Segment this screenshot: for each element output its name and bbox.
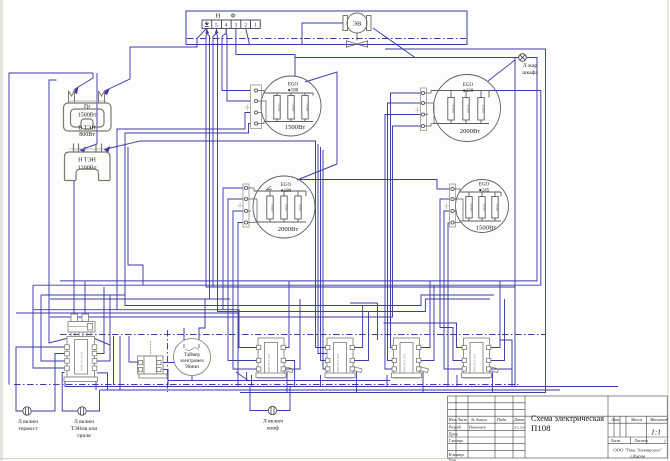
wire W42: [31, 354, 64, 412]
wire W37: [60, 58, 537, 281]
wire W13: [488, 60, 515, 81]
svg-text:Масса: Масса: [630, 417, 642, 422]
svg-text:ТЭНов или: ТЭНов или: [71, 426, 98, 432]
svg-text:Николаев: Николаев: [468, 425, 486, 430]
wire W40: [16, 312, 238, 314]
svg-text:ПМ 16-5-215: ПМ 16-5-215: [267, 353, 271, 372]
svg-text:500Вт: 500Вт: [291, 103, 295, 112]
svg-text:ПМ 16-5-215: ПМ 16-5-215: [336, 353, 340, 372]
svg-text:В ТЭН: В ТЭН: [78, 126, 96, 132]
lamp L3: [268, 406, 276, 414]
svg-text:500Вт: 500Вт: [469, 203, 473, 212]
wire W32: [448, 223, 450, 387]
wire W79: [100, 389, 560, 391]
svg-text:ПМ 16-5-215: ПМ 16-5-215: [403, 353, 407, 372]
svg-text:Пров.: Пров.: [448, 431, 459, 436]
wire W66: [354, 312, 368, 361]
svg-text:2: 2: [244, 23, 247, 29]
svg-text:гриля: гриля: [77, 433, 91, 439]
wire W58: [191, 376, 193, 381]
svg-text:ООО "Тока Электрогаз": ООО "Тока Электрогаз": [613, 448, 661, 453]
wire W20: [277, 387, 290, 411]
svg-text:Дата: Дата: [513, 417, 524, 422]
svg-text:500Вт: 500Вт: [495, 203, 499, 212]
svg-text:2000Вт: 2000Вт: [278, 226, 299, 233]
wire W29: [384, 323, 463, 348]
wire W4: [49, 80, 57, 317]
wire W35: [233, 211, 257, 369]
svg-text:Н.контр.: Н.контр.: [448, 452, 465, 457]
wire W12: [295, 57, 519, 59]
svg-text:100Вт: 100Вт: [481, 105, 485, 114]
wire W24: [391, 93, 421, 348]
svg-text:Т.контр.: Т.контр.: [449, 438, 464, 443]
svg-text:Лист: Лист: [610, 438, 621, 443]
wire W38: [33, 91, 541, 286]
svg-text:П108: П108: [531, 423, 551, 433]
wire W73: [386, 375, 388, 387]
svg-text:EGO: EGO: [479, 183, 490, 188]
wire W39: [41, 294, 125, 296]
switch S2 (small): [138, 341, 168, 378]
terminal block X1: [202, 20, 260, 28]
svg-text:1500Вт: 1500Вт: [285, 124, 306, 131]
wire W36: [238, 223, 243, 387]
svg-text:Л включ: Л включ: [18, 419, 38, 425]
svg-text:950Вт: 950Вт: [466, 105, 470, 114]
wire W67: [421, 281, 430, 348]
wire W6: [217, 28, 491, 312]
svg-text:конф: конф: [267, 425, 279, 432]
wire W70: [491, 369, 512, 387]
wire W30: [440, 199, 462, 361]
svg-text:Л жар: Л жар: [523, 63, 538, 69]
TEN1 (grill): [64, 91, 112, 132]
wire W72: [320, 375, 322, 387]
switch S5: [392, 338, 422, 378]
timer: [174, 339, 211, 376]
top box: [186, 11, 467, 45]
svg-text:800Вт: 800Вт: [79, 132, 95, 138]
svg-text:№ докум.: № докум.: [470, 417, 488, 422]
svg-text:Лист: Лист: [456, 417, 467, 422]
wire W22: [104, 141, 326, 348]
svg-text:Изм.: Изм.: [448, 417, 457, 422]
svg-text:г.Киров: г.Киров: [630, 454, 645, 459]
wire W57: [199, 299, 205, 347]
wire W76: [14, 384, 520, 386]
svg-text:шкафа: шкафа: [522, 69, 538, 76]
wire W61: [285, 361, 294, 387]
vertical lines left part: [456, 396, 525, 458]
svg-text:2000Вт: 2000Вт: [460, 128, 481, 135]
motor EV: [343, 13, 371, 47]
svg-text:●145: ●145: [479, 189, 490, 194]
wire W11: [207, 28, 210, 299]
switch S6: [462, 338, 492, 378]
svg-text:Схема электрическая: Схема электрическая: [531, 413, 604, 423]
lamp L1: [23, 407, 31, 415]
svg-text:●180: ●180: [288, 89, 299, 94]
lamp oven: [519, 54, 527, 62]
wire W41: [16, 347, 65, 411]
wire W33: [223, 188, 243, 310]
svg-text:26.11.2011: 26.11.2011: [514, 426, 525, 430]
wire W60: [285, 281, 289, 348]
svg-text:EGO: EGO: [288, 83, 299, 88]
svg-text:500Вт: 500Вт: [277, 103, 281, 112]
TEN2 (bottom): [65, 144, 111, 181]
svg-text:Л включ: Л включ: [263, 419, 283, 425]
wire W50: [84, 281, 86, 314]
wire W19: [125, 124, 494, 306]
svg-text:Утв.: Утв.: [449, 458, 458, 461]
svg-text:Н: Н: [216, 13, 221, 20]
wire W16: [515, 58, 519, 387]
wire W18: [117, 113, 251, 310]
wire W52: [113, 336, 115, 385]
wire W3: [74, 73, 94, 90]
wire W53: [119, 336, 121, 390]
svg-text:500Вт: 500Вт: [298, 203, 302, 212]
wire W64: [321, 147, 326, 361]
right part: [608, 396, 667, 458]
wire W46: [97, 295, 110, 361]
svg-text:1500Вт: 1500Вт: [476, 225, 497, 232]
wire W69: [491, 281, 500, 348]
wire W34: [228, 199, 257, 361]
wire W8: [226, 28, 250, 101]
svg-text:Таймер: Таймер: [184, 353, 200, 358]
wire W1: [105, 28, 207, 91]
ground symbol (PE cell): [205, 22, 209, 27]
svg-text:1:1: 1:1: [651, 428, 661, 437]
wire W77: [167, 330, 169, 392]
svg-text:ЭВ: ЭВ: [353, 21, 362, 28]
wire W2: [9, 73, 93, 385]
wire W48: [33, 285, 65, 368]
burner B1 EGO180 1500W: [251, 76, 322, 136]
wire W74: [456, 375, 458, 387]
burner B2 EGO220 2000W: [421, 75, 501, 142]
svg-text:термост: термост: [18, 426, 38, 432]
switch S1 (main selector with thermostat head): [64, 314, 98, 382]
switch S3: [256, 338, 286, 378]
wire W78: [65, 386, 618, 388]
svg-text:ПМ 16-5-215: ПМ 16-5-215: [473, 353, 477, 372]
wire W43: [62, 373, 78, 412]
svg-text:750Вт: 750Вт: [284, 203, 288, 212]
page edge artifacts: [0, 0, 3, 461]
wire W55: [161, 347, 176, 363]
svg-text:Гр: Гр: [84, 104, 90, 110]
svg-text:Листов: Листов: [633, 438, 648, 443]
svg-text:Разраб.: Разраб.: [448, 425, 462, 430]
wire W25: [388, 103, 421, 361]
wire W5: [213, 28, 515, 287]
svg-text:1: 1: [254, 23, 257, 29]
wire W9: [236, 28, 295, 76]
svg-text:Масштаб: Масштаб: [649, 417, 669, 422]
wire W26: [385, 115, 421, 370]
wire W23: [128, 147, 143, 285]
svg-text:Л включ: Л включ: [74, 419, 94, 425]
svg-text:750Вт: 750Вт: [270, 203, 274, 212]
wire W51: [129, 336, 139, 362]
wire W54: [161, 370, 168, 386]
wire W45: [97, 287, 104, 354]
wire W17: [385, 49, 546, 393]
wire W15: [373, 28, 415, 58]
svg-text:5: 5: [215, 23, 218, 29]
wire W62: [285, 299, 300, 369]
wire W27: [50, 126, 421, 317]
wire W7: [222, 28, 251, 91]
wire W68: [421, 285, 434, 360]
wire W10: [206, 28, 213, 287]
svg-text:950Вт: 950Вт: [451, 105, 455, 114]
svg-text:Подп.: Подп.: [496, 417, 507, 422]
svg-text:1500Вт: 1500Вт: [78, 113, 97, 119]
burner B3 EGO180 2000W: [243, 176, 315, 238]
wire W65: [354, 306, 362, 348]
wire W28: [297, 180, 450, 190]
wire W63: [318, 144, 327, 354]
svg-text:EGO: EGO: [281, 183, 292, 188]
burner B4 EGO145 1500W: [450, 180, 509, 233]
horizontal lines left part: [448, 403, 668, 451]
svg-text:Н ТЭН: Н ТЭН: [78, 158, 96, 164]
switch S4: [325, 338, 355, 378]
wire W71: [251, 375, 253, 387]
wire W31: [444, 211, 462, 369]
svg-text:●220: ●220: [463, 89, 474, 94]
svg-text:●180: ●180: [281, 189, 292, 194]
svg-text:4: 4: [225, 23, 228, 29]
svg-text:1200Вт: 1200Вт: [78, 166, 97, 172]
wire W75: [60, 334, 545, 336]
svg-text:90мин: 90мин: [185, 365, 199, 370]
wire W59: [168, 380, 390, 382]
svg-text:500Вт: 500Вт: [305, 103, 309, 112]
wire W49: [73, 181, 75, 314]
svg-text:электромех: электромех: [180, 359, 205, 364]
wire W14: [246, 28, 250, 45]
svg-text:EGO: EGO: [463, 83, 474, 88]
svg-text:Лит.: Лит.: [610, 417, 620, 422]
wire W44: [86, 390, 99, 411]
wire W21: [297, 72, 337, 180]
wire W56: [183, 328, 185, 347]
wire W80: [240, 392, 445, 394]
svg-text:ПМЕ 16-23-01: ПМЕ 16-23-01: [80, 351, 84, 371]
svg-text:3: 3: [235, 23, 238, 29]
svg-text:Ф: Ф: [230, 13, 235, 20]
wire W47: [41, 295, 65, 361]
lamp L2: [78, 407, 86, 415]
svg-text:500Вт: 500Вт: [482, 203, 486, 212]
